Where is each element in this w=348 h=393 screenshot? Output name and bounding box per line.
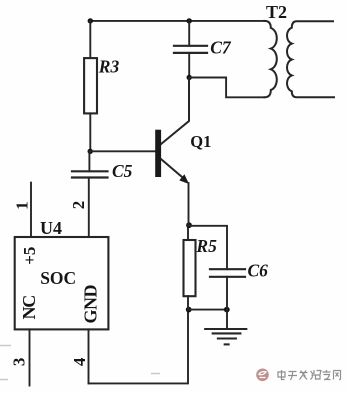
node base junction	[88, 149, 93, 154]
wire C5 top lead	[88, 151, 90, 171]
wire pin 3 lead of U4	[29, 329, 31, 385]
wire C7 top lead	[188, 21, 190, 46]
node top of R3	[88, 18, 93, 23]
svg-text:C6: C6	[248, 261, 269, 281]
svg-text:2: 2	[69, 201, 88, 210]
wire R3 bottom lead	[89, 113, 91, 151]
wire top rail VCC	[90, 20, 264, 22]
wire base of Q1	[90, 150, 155, 152]
wire R5 bottom to C6 bottom	[188, 309, 227, 311]
svg-text:SOC: SOC	[40, 268, 76, 288]
node collector junction	[187, 75, 192, 80]
svg-text:1: 1	[12, 201, 31, 210]
transistor Q1 base bar	[155, 130, 161, 177]
wire collector lead of Q1	[161, 78, 189, 145]
node R5 bottom junction	[186, 307, 192, 313]
wire bottom return from pin 4 to R5	[89, 310, 189, 384]
node top of C7	[187, 18, 192, 23]
transformer T2 primary winding	[265, 21, 277, 97]
wire R5 bottom lead	[187, 296, 189, 309]
svg-text:NC: NC	[19, 296, 39, 320]
svg-text:GND: GND	[81, 284, 101, 323]
watermark logo icon	[256, 369, 269, 382]
node emitter junction	[186, 222, 192, 228]
wire R5 top lead	[187, 226, 189, 240]
resistor R3	[84, 58, 97, 113]
capacitor C7	[174, 46, 207, 53]
wire C7 bottom lead	[188, 53, 190, 78]
emitter arrow of Q1	[179, 174, 189, 184]
wire R3 top lead	[89, 21, 91, 58]
wire C6 bottom to ground	[226, 277, 228, 329]
transformer T2 secondary winding	[287, 21, 334, 97]
wire pin 1 lead of U4	[30, 183, 32, 237]
wire pin 2 lead from C5 to U4	[88, 178, 90, 238]
svg-text:Q1: Q1	[190, 132, 211, 151]
scan artifact streaks	[0, 346, 160, 380]
wire collector junction to transformer primary bottom	[189, 78, 264, 98]
svg-text:R5: R5	[195, 236, 217, 256]
wire emitter to R5	[188, 183, 190, 226]
capacitor C6	[210, 269, 245, 277]
svg-text:3: 3	[9, 358, 28, 367]
IC U4 body	[15, 237, 109, 329]
wire emitter junction to C6	[188, 226, 227, 269]
svg-text:T2: T2	[266, 2, 287, 22]
watermark text 电子发烧友网	[278, 370, 341, 380]
svg-text:U4: U4	[40, 218, 62, 238]
node C6 bottom junction	[224, 307, 230, 313]
svg-text:C7: C7	[210, 38, 232, 58]
resistor R5	[184, 240, 196, 296]
svg-text:C5: C5	[112, 161, 133, 181]
svg-text:+5: +5	[20, 247, 39, 265]
svg-text:4: 4	[70, 357, 89, 366]
capacitor C5	[72, 171, 108, 177]
wire pin 4 lead of U4	[88, 329, 90, 383]
svg-text:R3: R3	[98, 56, 120, 76]
wire emitter lead of Q1	[161, 159, 184, 179]
ground	[205, 329, 246, 344]
